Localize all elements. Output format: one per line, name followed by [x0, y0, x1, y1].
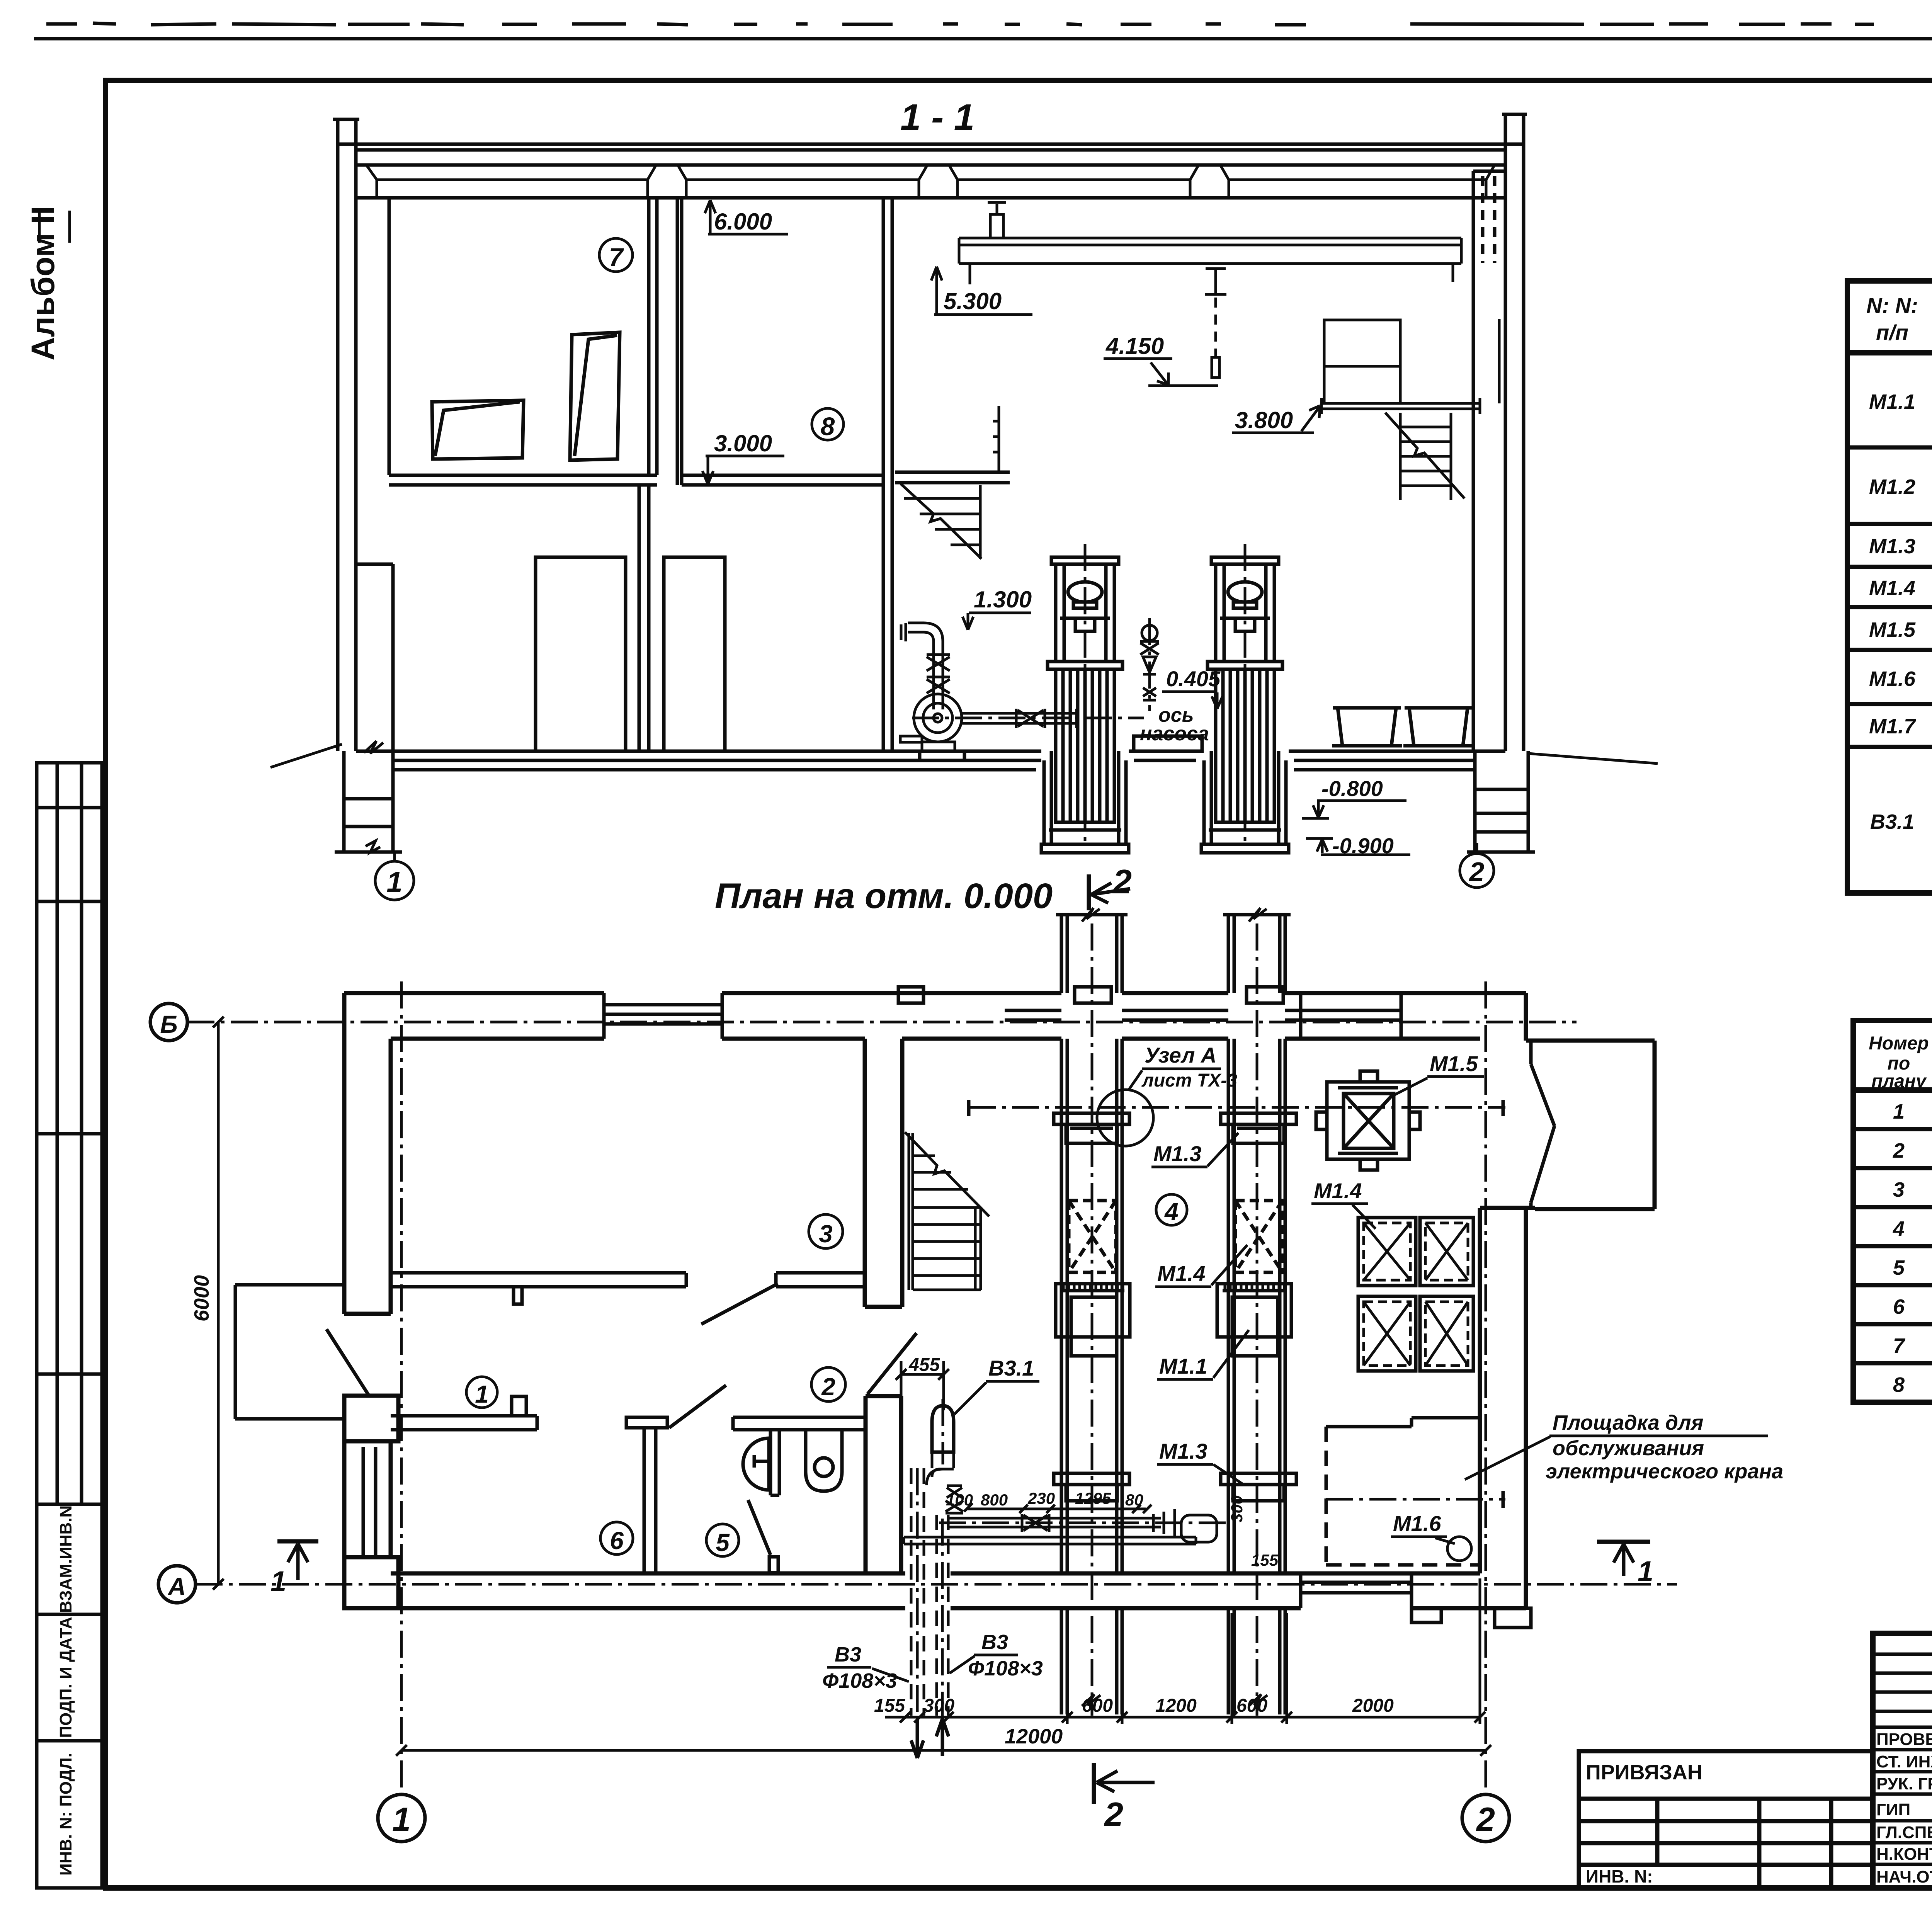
- wall pipe riser: [993, 406, 999, 472]
- svg-text:Альбом II: Альбом II: [25, 206, 61, 361]
- main title block: [1873, 1633, 1932, 1888]
- svg-text:800: 800: [981, 1491, 1008, 1509]
- svg-text:455: 455: [908, 1355, 940, 1375]
- pump unit: [900, 694, 1144, 751]
- svg-text:1.300: 1.300: [974, 587, 1032, 612]
- platform dashed: [1326, 1418, 1480, 1565]
- svg-text:ГЛ.СПЕЦ: ГЛ.СПЕЦ: [1876, 1823, 1932, 1842]
- svg-text:12000: 12000: [1005, 1725, 1063, 1748]
- svg-text:М1.4: М1.4: [1314, 1179, 1362, 1203]
- container M1.4 in ch2: [1235, 1201, 1282, 1272]
- svg-text:3: 3: [1893, 1178, 1905, 1201]
- axis 2 vertical: [1485, 981, 1487, 1794]
- svg-text:4: 4: [1164, 1198, 1179, 1226]
- svg-text:1: 1: [386, 866, 402, 898]
- screen unit 1: [1041, 544, 1129, 853]
- door room6 leaf: [669, 1385, 726, 1428]
- outer page border: [34, 37, 1932, 41]
- pump V3.1: [932, 1406, 954, 1452]
- ground floor doors: [536, 557, 626, 751]
- sluice gate M1.3 top ch2: [1221, 1113, 1296, 1143]
- svg-text:6000: 6000: [190, 1275, 213, 1321]
- toilet: [806, 1430, 842, 1491]
- elevation 5.300: [935, 268, 938, 314]
- room 7 circle: [599, 238, 633, 272]
- left wall: [344, 993, 398, 1608]
- right wall: [1473, 114, 1527, 751]
- roof slab: [338, 144, 1524, 198]
- crane beam: [959, 238, 1461, 284]
- sluice gate M1.3 bottom ch1: [1054, 1473, 1129, 1501]
- svg-text:плану: плану: [1871, 1071, 1927, 1092]
- middle stairs under landing: [901, 484, 981, 559]
- svg-text:М1.1: М1.1: [1869, 390, 1915, 413]
- interior walls rooms 7/8: [389, 198, 892, 751]
- svg-text:1: 1: [392, 1801, 411, 1838]
- channel 2: [1228, 923, 1285, 1716]
- elevation 3.000: [707, 455, 709, 483]
- room1 corridor wall: [391, 1396, 537, 1430]
- pump vertical pipe with valves: [901, 623, 950, 709]
- privyazan aux table: [1579, 1751, 1873, 1888]
- svg-text:5: 5: [716, 1529, 730, 1556]
- svg-text:СТ. ИНЖ.: СТ. ИНЖ.: [1876, 1752, 1932, 1771]
- TITLEBLOCK: [1579, 1633, 1932, 1932]
- svg-text:насоса: насоса: [1140, 723, 1209, 745]
- svg-text:3.000: 3.000: [714, 430, 772, 456]
- svg-text:М1.3: М1.3: [1869, 535, 1915, 558]
- svg-text:Ф108×3: Ф108×3: [968, 1657, 1043, 1680]
- svg-text:2: 2: [1112, 862, 1132, 901]
- vent grille shapes room 7: [432, 332, 620, 460]
- signature grid: [1873, 1633, 1932, 1888]
- svg-text:М1.5: М1.5: [1869, 618, 1916, 641]
- svg-text:ПОДП. И ДАТА: ПОДП. И ДАТА: [56, 1617, 75, 1738]
- svg-text:ПРИВЯЗАН: ПРИВЯЗАН: [1586, 1761, 1702, 1784]
- svg-text:Площадка для: Площадка для: [1553, 1411, 1703, 1434]
- plan piping: [904, 1452, 1229, 1544]
- room 8 circle: [812, 408, 844, 440]
- roles: [1876, 1730, 1932, 1886]
- rooms table grid: [1853, 1020, 1932, 1402]
- svg-text:электрического крана: электрического крана: [1546, 1460, 1783, 1483]
- svg-text:8: 8: [1893, 1373, 1905, 1396]
- screen M1.1 ch2: [1217, 1284, 1291, 1356]
- crane rail support: [988, 202, 1006, 238]
- svg-text:НАЧ.ОТД: НАЧ.ОТД: [1876, 1867, 1932, 1886]
- svg-text:М1.3: М1.3: [1159, 1439, 1207, 1463]
- screen M1.1 ch1: [1056, 1284, 1130, 1356]
- svg-text:ГИП: ГИП: [1876, 1800, 1910, 1819]
- svg-text:М1.2: М1.2: [1869, 475, 1915, 498]
- screen unit 2: [1201, 544, 1289, 853]
- scan artifact dashes top: [46, 23, 1932, 25]
- right wall and bay: [1480, 993, 1655, 1608]
- svg-text:230: 230: [1027, 1489, 1055, 1507]
- svg-text:7: 7: [609, 243, 624, 271]
- svg-text:А: А: [167, 1573, 186, 1600]
- svg-text:2: 2: [821, 1373, 835, 1401]
- svg-text:600: 600: [1082, 1696, 1113, 1716]
- uzel A circle: [1097, 1090, 1153, 1146]
- door room5 leaf: [748, 1500, 770, 1555]
- svg-text:4.150: 4.150: [1105, 333, 1164, 359]
- svg-text:обслуживания: обслуживания: [1553, 1437, 1704, 1460]
- entrance door leaf: [327, 1329, 369, 1396]
- svg-text:5: 5: [1893, 1256, 1905, 1279]
- svg-text:300: 300: [1228, 1495, 1246, 1522]
- left form strip: [37, 763, 102, 1888]
- axis B horizontal: [187, 1021, 1577, 1024]
- dim 12000: [401, 1749, 1486, 1752]
- right box structure: [1324, 319, 1499, 403]
- svg-text:ВЗАМ.ИНВ.N: ВЗАМ.ИНВ.N: [56, 1505, 75, 1613]
- svg-text:В3: В3: [835, 1643, 861, 1666]
- svg-text:М1.4: М1.4: [1157, 1261, 1206, 1286]
- corridor pier wall: [866, 1396, 901, 1573]
- svg-text:М1.7: М1.7: [1869, 715, 1917, 738]
- svg-text:ИНВ. N:: ИНВ. N:: [1586, 1866, 1653, 1886]
- svg-text:РУК. ГР.: РУК. ГР.: [1876, 1774, 1932, 1793]
- svg-text:М1.3: М1.3: [1153, 1141, 1202, 1166]
- svg-text:3.800: 3.800: [1235, 407, 1293, 433]
- svg-text:1: 1: [1893, 1100, 1905, 1123]
- svg-text:3: 3: [819, 1220, 833, 1248]
- svg-text:Б: Б: [160, 1010, 177, 1038]
- svg-text:6: 6: [1893, 1295, 1905, 1318]
- vertical pipes below: [911, 1468, 948, 1716]
- floor slab 3.000: [389, 472, 1010, 485]
- svg-text:7: 7: [1893, 1334, 1906, 1357]
- section mark 2 top: [1087, 874, 1091, 910]
- svg-text:М1.6: М1.6: [1869, 667, 1916, 690]
- svg-text:1200: 1200: [1155, 1696, 1197, 1716]
- svg-text:1 - 1: 1 - 1: [900, 97, 975, 138]
- svg-text:4: 4: [1893, 1217, 1905, 1240]
- sluice gate M1.3 bottom ch2: [1221, 1473, 1296, 1501]
- svg-text:8: 8: [821, 412, 835, 440]
- channels below bottom wall: [1061, 1608, 1285, 1714]
- svg-text:600: 600: [1236, 1696, 1267, 1716]
- svg-text:Номер: Номер: [1869, 1033, 1929, 1054]
- svg-text:1: 1: [270, 1565, 286, 1597]
- middle valve stack: [1140, 618, 1159, 711]
- door corridor-hall leaf: [867, 1333, 917, 1394]
- grade line right: [1528, 753, 1658, 764]
- svg-text:М1.1: М1.1: [1159, 1354, 1207, 1378]
- T partition rooms 6/5: [626, 1417, 667, 1573]
- section mark 1 right: [1597, 1540, 1650, 1544]
- porch: [235, 1285, 346, 1419]
- svg-text:В3.1: В3.1: [1870, 810, 1914, 833]
- bathroom walls: [733, 1417, 866, 1495]
- svg-text:План на отм. 0.000: План на отм. 0.000: [715, 876, 1053, 916]
- bottom wall: [344, 1573, 1526, 1608]
- svg-text:155: 155: [874, 1696, 905, 1716]
- svg-text:6.000: 6.000: [714, 209, 772, 235]
- left wall foundation: [335, 751, 402, 852]
- svg-text:ИНВ. N: ПОДЛ.: ИНВ. N: ПОДЛ.: [56, 1753, 75, 1876]
- svg-text:М1.4: М1.4: [1869, 577, 1915, 600]
- containers M1.4 block: [1358, 1218, 1473, 1371]
- svg-text:п/п: п/п: [1876, 320, 1908, 345]
- svg-text:В3.1: В3.1: [988, 1356, 1034, 1380]
- right stairs: [1385, 413, 1464, 500]
- crane trolley and hook: [1205, 269, 1226, 378]
- PLAN: [150, 862, 1783, 1842]
- section axis 2: [1476, 843, 1478, 854]
- svg-text:N: N:: N: N:: [1866, 293, 1918, 318]
- section mark 2 bottom: [1092, 1763, 1096, 1804]
- vertical dim 6000: [217, 1022, 220, 1584]
- svg-text:М1.5: М1.5: [1430, 1051, 1478, 1076]
- svg-text:2: 2: [1469, 857, 1485, 887]
- svg-text:155: 155: [1251, 1551, 1279, 1569]
- svg-text:1: 1: [1638, 1555, 1653, 1587]
- svg-text:ПРОВЕР.: ПРОВЕР.: [1876, 1730, 1932, 1749]
- trolley M1.5: [1316, 1071, 1420, 1170]
- stairwell wall: [865, 1039, 902, 1307]
- section mark 1 left: [277, 1539, 318, 1544]
- grade line left: [270, 744, 342, 767]
- svg-text:2: 2: [1893, 1139, 1905, 1162]
- svg-text:2: 2: [1476, 1801, 1495, 1838]
- right platform 3.800: [1321, 398, 1480, 414]
- channel 1: [1061, 923, 1122, 1716]
- ceiling panel joints: [366, 165, 1495, 198]
- room circles: [809, 1214, 843, 1248]
- svg-text:6: 6: [610, 1527, 624, 1554]
- svg-text:М1.6: М1.6: [1393, 1511, 1441, 1536]
- svg-text:1: 1: [475, 1380, 489, 1408]
- svg-text:Узел А: Узел А: [1145, 1043, 1216, 1067]
- elevation 6.000: [709, 202, 712, 233]
- TABLES: [1847, 233, 1932, 1402]
- axis 1 vertical: [400, 981, 403, 1794]
- left wall: [333, 119, 393, 751]
- top wall: [344, 993, 1526, 1039]
- right wall foundation: [1467, 751, 1535, 852]
- containers right: [1332, 708, 1473, 746]
- svg-text:1295: 1295: [1075, 1489, 1111, 1507]
- svg-text:2000: 2000: [1352, 1696, 1394, 1716]
- svg-text:300: 300: [923, 1696, 954, 1716]
- axis A horizontal: [196, 1583, 1677, 1586]
- svg-text:Н.КОНТР.: Н.КОНТР.: [1876, 1845, 1932, 1864]
- svg-text:В3: В3: [981, 1631, 1008, 1654]
- channels rising above plan: [1056, 908, 1291, 993]
- room 3 bottom wall: [391, 1273, 865, 1304]
- svg-text:2: 2: [1104, 1795, 1123, 1833]
- svg-text:5.300: 5.300: [944, 288, 1002, 314]
- equipment table grid: [1847, 281, 1932, 893]
- room 3 door leaf: [701, 1284, 778, 1324]
- bottom dim chain: [885, 1578, 1485, 1724]
- ground floor lines: [356, 736, 1505, 770]
- svg-text:лист ТХ-3: лист ТХ-3: [1141, 1070, 1237, 1091]
- container M1.4 in ch1: [1069, 1201, 1116, 1272]
- plan stairs: [905, 1132, 989, 1290]
- svg-text:-0.800: -0.800: [1321, 776, 1383, 801]
- section axis 1: [393, 852, 396, 861]
- sluice gate M1.3 top ch1: [1054, 1113, 1129, 1143]
- SECTION: [270, 97, 1658, 900]
- washbasin: [743, 1438, 769, 1490]
